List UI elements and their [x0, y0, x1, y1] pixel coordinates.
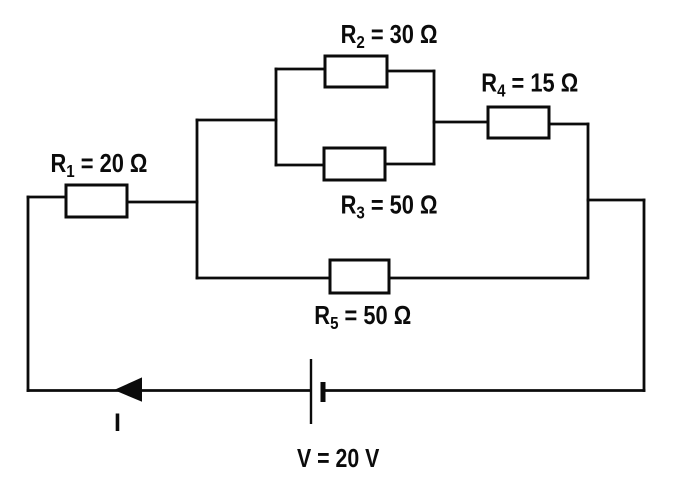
svg-text:R2 = 30 Ω: R2 = 30 Ω: [341, 20, 438, 52]
svg-text:R1 = 20 Ω: R1 = 20 Ω: [51, 149, 148, 181]
svg-text:I: I: [114, 409, 121, 437]
svg-text:R4 = 15 Ω: R4 = 15 Ω: [481, 69, 578, 101]
svg-text:V = 20 V: V = 20 V: [297, 444, 379, 474]
svg-text:R5 = 50 Ω: R5 = 50 Ω: [314, 301, 411, 333]
svg-text:R3 = 50 Ω: R3 = 50 Ω: [341, 191, 438, 223]
